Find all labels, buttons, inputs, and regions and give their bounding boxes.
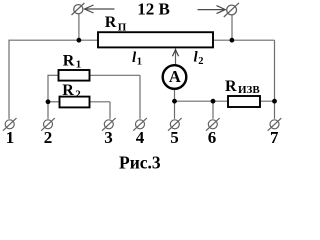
svg-text:Рис.3: Рис.3	[119, 152, 161, 172]
svg-text:3: 3	[104, 128, 113, 147]
svg-text:7: 7	[270, 128, 279, 147]
svg-text:2: 2	[44, 128, 53, 147]
svg-text:R: R	[105, 14, 117, 31]
svg-text:5: 5	[170, 128, 179, 147]
svg-text:4: 4	[136, 128, 145, 147]
svg-text:6: 6	[208, 128, 217, 147]
svg-text:ИЗВ: ИЗВ	[238, 84, 260, 96]
svg-text:A: A	[169, 67, 181, 86]
svg-text:П: П	[118, 22, 127, 34]
svg-text:R: R	[62, 82, 74, 99]
svg-text:1: 1	[6, 128, 15, 147]
svg-text:1: 1	[137, 57, 142, 68]
svg-text:12 В: 12 В	[137, 0, 170, 19]
svg-text:2: 2	[75, 89, 81, 101]
svg-text:1: 1	[76, 59, 82, 71]
svg-text:2: 2	[198, 56, 203, 67]
svg-text:R: R	[225, 78, 237, 95]
svg-text:R: R	[63, 53, 75, 70]
